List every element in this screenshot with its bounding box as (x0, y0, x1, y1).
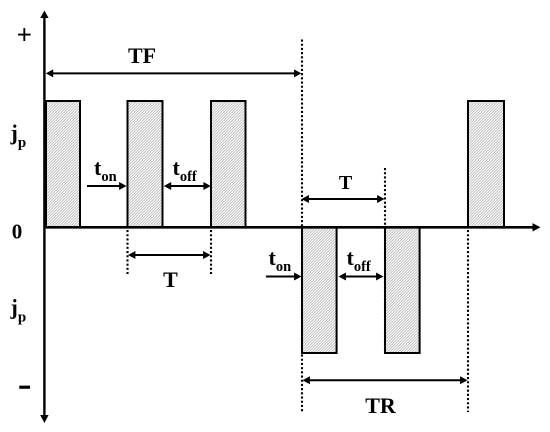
svg-text:+: + (17, 20, 32, 50)
svg-text:jp: jp (10, 120, 27, 151)
svg-text:ton: ton (269, 245, 292, 275)
svg-text:toff: toff (347, 245, 371, 275)
svg-text:jp: jp (10, 295, 27, 326)
svg-text:0: 0 (12, 219, 23, 243)
svg-text:T: T (339, 172, 353, 194)
svg-text:TR: TR (365, 393, 397, 418)
svg-text:ton: ton (94, 155, 117, 185)
svg-text:T: T (163, 267, 178, 292)
svg-text:toff: toff (173, 155, 197, 185)
svg-text:TF: TF (128, 43, 156, 68)
